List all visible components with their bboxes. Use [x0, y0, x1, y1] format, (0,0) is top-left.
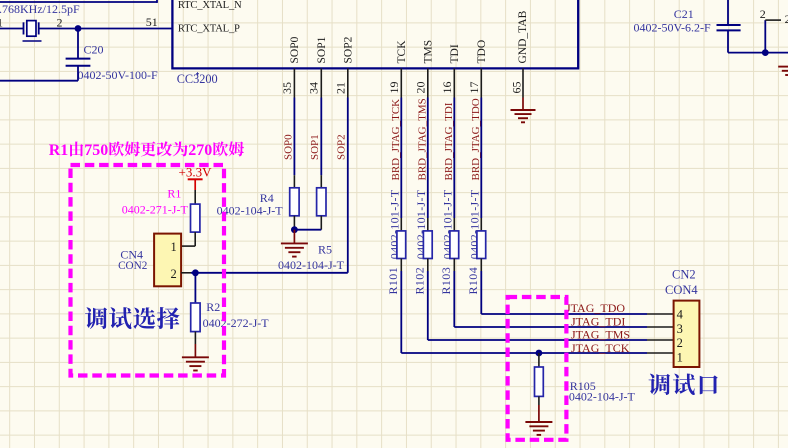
svg-text:20: 20: [413, 82, 427, 94]
wire JTAG_TDI row: [454, 326, 647, 328]
pin stub CN2 row TDI: [647, 326, 674, 328]
R101 bottom lead: [400, 259, 402, 272]
wire JTAG_TMS row: [428, 339, 647, 341]
pin 65 stub GND_TAB: [522, 68, 524, 97]
capacitor C20: [66, 58, 91, 60]
svg-text:.768KHz/12.5pF: .768KHz/12.5pF: [0, 2, 80, 16]
svg-text:RTC_XTAL_N: RTC_XTAL_N: [178, 0, 242, 11]
wire TDI to R103: [453, 98, 455, 219]
wire junction to R105: [538, 353, 540, 367]
svg-text:0402-104-J-T: 0402-104-J-T: [217, 204, 284, 218]
svg-text:750: 750: [84, 142, 108, 159]
svg-text:CON4: CON4: [665, 283, 698, 297]
wire TMS to R102: [427, 98, 429, 219]
wire R105 to ground: [538, 396, 540, 405]
svg-text:1: 1: [677, 350, 683, 364]
wire SOP0 to R4: [293, 98, 295, 176]
R102 top lead: [427, 218, 429, 231]
wire C21 bottom elbow: [727, 30, 729, 52]
wire RTC_XTAL_P net left segment: [0, 28, 24, 30]
junction node C21 net: [762, 49, 769, 56]
ground partial right edge: [778, 66, 788, 68]
svg-text:JTAG_TDI: JTAG_TDI: [571, 314, 625, 328]
svg-text:CN2: CN2: [672, 268, 696, 282]
resistor R102: [423, 231, 432, 259]
svg-text:JTAG_TDO: JTAG_TDO: [566, 301, 625, 315]
pin stub CN2 row TDO: [647, 313, 674, 315]
svg-text:R1: R1: [167, 187, 181, 201]
svg-text:3: 3: [677, 322, 683, 336]
wire SOP1 to R5: [320, 98, 322, 176]
svg-text:0402-50V-100-F: 0402-50V-100-F: [78, 68, 159, 82]
pin 21 stub SOP2: [347, 68, 349, 97]
svg-text:2: 2: [677, 336, 683, 350]
ground GND_TAB: [522, 98, 524, 111]
ground below R105: [525, 421, 552, 423]
svg-text:0402-104-J-T: 0402-104-J-T: [278, 258, 345, 272]
wire JTAG_TDO row: [481, 313, 647, 315]
pin 35 stub SOP0: [293, 68, 295, 97]
svg-text:1: 1: [171, 240, 177, 254]
note text 调试口 (debug port): [649, 374, 671, 395]
R102 bottom lead: [427, 259, 429, 272]
svg-text:TDO: TDO: [476, 40, 488, 64]
pin 17 stub TDO: [480, 68, 482, 97]
wire R101 down to JTAG row: [400, 271, 402, 353]
wire crystal to CC3200 pin 51: [39, 28, 173, 30]
wire TCK to R101: [400, 98, 402, 219]
svg-text:C21: C21: [674, 7, 694, 21]
svg-text:R103: R103: [439, 267, 453, 295]
svg-text:BRD_JTAG_TMS: BRD_JTAG_TMS: [417, 98, 429, 180]
pin 20 stub TMS: [427, 68, 429, 97]
svg-text:1: 1: [0, 16, 3, 30]
svg-text:JTAG_TCK: JTAG_TCK: [571, 341, 630, 355]
svg-text:R104: R104: [466, 267, 480, 295]
connector CN2 CON4 body: [674, 301, 700, 367]
resistor R2: [191, 303, 200, 332]
resistor R104: [477, 231, 486, 259]
R103 top lead: [453, 218, 455, 231]
pin stub CN4 pin2: [181, 272, 191, 274]
svg-text:19: 19: [387, 82, 401, 94]
resistor R101: [397, 231, 406, 259]
svg-text:16: 16: [440, 82, 454, 94]
svg-text:0402-104-J-T: 0402-104-J-T: [569, 390, 636, 404]
svg-text:R101: R101: [386, 267, 400, 295]
wire RTC_XTAL_N net top: [0, 1, 157, 3]
R104 bottom lead: [480, 259, 482, 272]
wire JTAG_TCK row: [401, 352, 647, 354]
junction node pin2 R2: [192, 269, 199, 276]
wire junction up to pin 2: [764, 20, 766, 53]
op-amp U1 CC3200 IC body: [172, 0, 578, 68]
resistor R5: [317, 188, 326, 216]
wire R102 down to JTAG row: [427, 271, 429, 340]
dashed highlight box 调试口: [508, 297, 567, 440]
pin 16 stub TDI: [453, 68, 455, 97]
note text 调试选择 (debug select): [85, 307, 107, 329]
svg-text:RTC_XTAL_P: RTC_XTAL_P: [178, 24, 240, 35]
svg-text:SOP1: SOP1: [309, 134, 321, 160]
svg-text:SOP2: SOP2: [342, 36, 354, 63]
svg-text:SOP1: SOP1: [316, 36, 328, 63]
svg-text:CON2: CON2: [118, 260, 147, 272]
resistor R103: [450, 231, 459, 259]
svg-text:0402-271-J-T: 0402-271-J-T: [122, 203, 189, 217]
svg-text:2: 2: [171, 267, 177, 281]
R5 top lead: [320, 175, 322, 188]
junction node R105 on JTAG_TCK: [536, 350, 543, 357]
capacitor C21: [717, 24, 741, 26]
connector CN4 CON2 body: [154, 234, 181, 287]
svg-text:2: 2: [785, 12, 788, 26]
wire CN4 pin2 to SOP2: [191, 272, 348, 274]
svg-text:BRD_JTAG_TDO: BRD_JTAG_TDO: [470, 98, 482, 180]
ground below R2: [182, 356, 209, 358]
svg-text:35: 35: [280, 82, 294, 94]
resistor R1: [191, 204, 200, 232]
svg-text:GND_TAB: GND_TAB: [517, 10, 529, 63]
svg-text:51: 51: [146, 15, 158, 29]
svg-text:2: 2: [760, 7, 766, 21]
R101 top lead: [400, 218, 402, 231]
R104 top lead: [480, 218, 482, 231]
crystal Y (32.768KHz): [23, 22, 25, 34]
svg-text:BRD_JTAG_TDI: BRD_JTAG_TDI: [443, 102, 455, 180]
pin 34 stub SOP1: [320, 68, 322, 97]
svg-text:4: 4: [677, 308, 684, 322]
svg-text:TCK: TCK: [396, 40, 408, 64]
resistor R105: [535, 367, 544, 396]
wire top to C21: [727, 0, 729, 25]
svg-text:TDI: TDI: [449, 44, 461, 63]
wire TDO to R104: [480, 98, 482, 219]
svg-text:270: 270: [188, 142, 212, 159]
svg-text:0402-272-J-T: 0402-272-J-T: [203, 316, 270, 330]
svg-text:C20: C20: [84, 42, 104, 56]
pin stub CN2 row TCK: [647, 352, 674, 354]
svg-text:34: 34: [307, 82, 321, 94]
junction node R4 R5 ground: [291, 226, 298, 233]
wire junction down to C20: [77, 29, 79, 59]
wire R2 to ground: [194, 332, 196, 344]
wire R103 down to JTAG row: [453, 271, 455, 327]
svg-text:R1: R1: [49, 142, 69, 159]
wire SOP2 down: [347, 98, 349, 273]
svg-text:SOP0: SOP0: [289, 36, 301, 63]
svg-text:0402-50V-6.2-F: 0402-50V-6.2-F: [634, 21, 712, 35]
svg-text:17: 17: [467, 82, 481, 94]
svg-text:SOP2: SOP2: [336, 134, 348, 160]
wire R1 bottom to CN4 pin1: [194, 232, 196, 246]
svg-text:65: 65: [509, 82, 523, 94]
svg-text:SOP0: SOP0: [282, 134, 294, 160]
pin stub CN2 row TMS: [647, 339, 674, 341]
svg-text:R2: R2: [206, 300, 220, 314]
svg-text:JTAG_TMS: JTAG_TMS: [571, 328, 630, 342]
svg-text:21: 21: [333, 82, 347, 94]
svg-text:R5: R5: [318, 243, 332, 257]
wire +3.3V to R1: [194, 190, 196, 204]
pin stub CN4 pin1: [181, 245, 195, 247]
wire junction down to R2: [194, 273, 196, 303]
ground below R4: [293, 230, 295, 244]
svg-text:BRD_JTAG_TCK: BRD_JTAG_TCK: [390, 99, 402, 181]
svg-text:R102: R102: [413, 267, 427, 295]
junction node RTC_XTAL_P: [75, 25, 82, 32]
wire R5 bottom elbow to junction: [320, 216, 322, 230]
dashed highlight box 调试选择: [71, 165, 225, 376]
R4 top lead: [293, 175, 295, 188]
wire R104 down to JTAG row: [480, 271, 482, 314]
wire R4 bottom to ground junction: [293, 216, 295, 230]
svg-text:TMS: TMS: [422, 40, 434, 64]
R103 bottom lead: [453, 259, 455, 272]
wire C20 bottom to left edge: [77, 66, 79, 81]
resistor R4: [290, 188, 299, 216]
pin stub 2 top right: [765, 19, 781, 21]
pin 19 stub TCK: [400, 68, 402, 97]
